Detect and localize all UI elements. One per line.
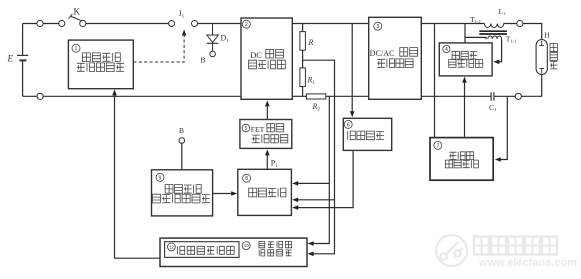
svg-text:7: 7 bbox=[436, 143, 439, 149]
block 4 text line2 点灯电路 bbox=[449, 60, 483, 68]
node B below diode bbox=[210, 51, 216, 57]
label R1 bbox=[307, 76, 316, 87]
label R2 bbox=[312, 102, 321, 113]
box 12 inner 低压关灯电路 bbox=[165, 242, 239, 258]
block 9 circled number 9 bbox=[156, 173, 164, 181]
wire top rail segment J1 to block 2 (through diode node) bbox=[195, 23, 242, 25]
wire transformer secondary left terminal bbox=[465, 37, 486, 39]
battery label E bbox=[7, 54, 14, 64]
dashed relay control line from block 1 to J1 bbox=[133, 30, 186, 63]
label P1 bbox=[271, 159, 278, 170]
wire arrow block 8 to block 5 (P1) bbox=[265, 149, 270, 169]
wire bottom rail block 2 to R2 bbox=[292, 95, 306, 97]
svg-text:DC/AC: DC/AC bbox=[370, 49, 396, 58]
block 1 text line2 继电器电路 bbox=[77, 63, 124, 72]
wire top rail junction down to block 4 top bbox=[464, 24, 466, 43]
lamp vertical text 金卤灯 bbox=[550, 44, 557, 69]
block 3 circled number 3 bbox=[374, 22, 382, 30]
wire arrow block 9 to block 8 bbox=[213, 191, 238, 196]
block 4 text line1 金卤灯 bbox=[452, 51, 477, 59]
terminal circle switch left bbox=[59, 20, 65, 26]
block 1 text line1 切断电源 bbox=[82, 53, 120, 62]
wire arrow block 5 to block 2 bottom bbox=[265, 100, 270, 119]
block 7 box 灯点亮起动电路 bbox=[430, 138, 493, 181]
wire from bottom rail right of R2 down (node) bbox=[328, 96, 330, 240]
svg-text:10: 10 bbox=[244, 243, 249, 248]
wire from box 12 left to block 1 bottom with arrow bbox=[112, 89, 160, 258]
svg-text:4: 4 bbox=[445, 47, 448, 53]
wire transformer secondary right down into block 4 with arrow bbox=[493, 39, 501, 64]
block 2 text line2 提升电路 bbox=[249, 60, 286, 69]
terminal circle lamp top bbox=[517, 20, 523, 26]
wire branch to control block 8 (upper arrow) bbox=[292, 181, 329, 186]
wire node B down into block 9 bbox=[181, 143, 183, 170]
svg-text:1: 1 bbox=[75, 46, 78, 52]
switch K blade bbox=[69, 14, 81, 21]
block 6 box 定时电路 bbox=[343, 118, 391, 150]
block 3 text line1 DC/AC高频 bbox=[370, 48, 418, 59]
label T1-2 bbox=[470, 15, 481, 24]
block 2 text line1 DC电压 bbox=[250, 49, 283, 60]
wire top rail segment battery to switch bbox=[23, 23, 62, 25]
wire tap between R and R1 going right and down (node) bbox=[303, 60, 335, 251]
wire from top rail to resistor R bbox=[302, 24, 304, 32]
resistor R1 body bbox=[300, 68, 306, 87]
svg-text:E: E bbox=[7, 54, 14, 64]
box 12 text 低压关灯电路 bbox=[178, 246, 235, 254]
label J1 bbox=[179, 9, 185, 20]
block 4 circled number 4 bbox=[443, 45, 450, 53]
wire branch tap to control block 8 (middle arrow) bbox=[292, 198, 334, 203]
block 9 text line1 电源电压 bbox=[165, 185, 201, 194]
wire top rail down to timer block 6 with arrow bbox=[350, 24, 355, 118]
terminal circle left top bbox=[37, 20, 43, 26]
svg-text:12: 12 bbox=[169, 245, 174, 250]
svg-text:5: 5 bbox=[244, 126, 247, 132]
block 7 text line2 起动电路 bbox=[445, 160, 478, 168]
transformer core bbox=[479, 31, 507, 34]
battery E plates bbox=[17, 55, 28, 60]
label T1-1 bbox=[506, 35, 517, 44]
label D1 bbox=[221, 34, 230, 45]
wire timer block 6 output down then left to block 8 (lower arrow) bbox=[292, 150, 353, 210]
svg-text:B: B bbox=[201, 56, 206, 65]
block 5 circled number 5 and text line1 FET栅极 bbox=[242, 124, 284, 134]
box 10 circled number 10 bbox=[242, 242, 250, 250]
capacitor C1 plates bbox=[491, 92, 494, 100]
svg-text:K: K bbox=[74, 7, 81, 17]
svg-text:R: R bbox=[308, 38, 314, 47]
wire bottom rail block 3 to C1 bbox=[421, 95, 491, 97]
block 6 text 定时电路 bbox=[348, 131, 384, 140]
label R bbox=[308, 38, 314, 47]
block 5 text line2 驱动电路 bbox=[252, 135, 288, 143]
transformer secondary winding T1-1 bbox=[488, 36, 502, 39]
terminal circle lamp bottom bbox=[515, 93, 521, 99]
block 3 box DC/AC高频变换电路 bbox=[369, 17, 422, 99]
wire lamp circuit feedback down-left into block 7 right edge bbox=[495, 96, 508, 162]
node B above block 9 bbox=[179, 138, 185, 144]
switch K label bbox=[74, 7, 81, 17]
label L1 bbox=[499, 7, 507, 16]
label B above block 9 bbox=[179, 126, 184, 135]
block 3 text line2 变换电路 bbox=[377, 59, 413, 68]
wire top rail segment block 2 to block 3 bbox=[292, 23, 368, 25]
svg-text:www.elecfans.com: www.elecfans.com bbox=[478, 257, 577, 269]
box 10 outer 异常状态检测电路 bbox=[160, 238, 307, 266]
relay contact J1 right circle bbox=[192, 21, 198, 27]
block 7 text line1 灯点亮 bbox=[449, 152, 473, 160]
wire bottom rail battery to block 2 bbox=[23, 95, 241, 97]
wire block 7 up to block 4 bottom with arrow bbox=[462, 77, 467, 138]
svg-text:3: 3 bbox=[376, 24, 379, 30]
box 10 text line2 检测电路 bbox=[259, 250, 291, 256]
label B at diode node bbox=[201, 56, 206, 65]
metal halide lamp H tube bbox=[536, 40, 547, 75]
resistor R body bbox=[300, 32, 306, 51]
relay contact J1 left circle bbox=[169, 21, 175, 27]
block 2 box DC电压提升电路 bbox=[241, 18, 292, 99]
block 1 box 切断电源继电器电路 bbox=[68, 40, 133, 89]
block 1 circled number 1 bbox=[72, 44, 80, 52]
wire top rail segment block 3 to transformer primary bbox=[421, 23, 484, 25]
terminal circle switch right bbox=[80, 20, 86, 26]
block 2 circled number 2 bbox=[242, 20, 250, 28]
wire top rail down to block 7 (left feed) bbox=[434, 24, 436, 138]
wire between R and R1 bbox=[302, 50, 304, 68]
box 12 circled number 12 bbox=[168, 243, 176, 251]
wire bottom rail C1 to lamp bottom bbox=[494, 74, 542, 96]
wire bottom rail R2 to block 3 bbox=[326, 95, 369, 97]
block 8 text 控制电路 bbox=[249, 188, 286, 197]
block 4 box 金卤灯点灯电路 bbox=[439, 43, 492, 76]
block 8 box 控制电路 bbox=[238, 169, 292, 215]
block 8 circled number 8 bbox=[243, 174, 251, 182]
resistor R2 body (in bottom rail) bbox=[307, 94, 326, 99]
svg-text:H: H bbox=[544, 31, 550, 40]
label C1 bbox=[489, 103, 497, 112]
block 6 circled number 6 bbox=[344, 120, 352, 128]
block 9 text line2 降落检测电路 bbox=[152, 194, 210, 203]
svg-text:FET: FET bbox=[251, 125, 265, 134]
diode D1 bbox=[207, 24, 219, 52]
transformer T1 primary winding T1-2 (L1) bbox=[484, 24, 503, 28]
label H bbox=[544, 31, 550, 40]
wire elbow into box 10 upper arrow bbox=[308, 240, 330, 246]
svg-text:B: B bbox=[179, 126, 184, 135]
svg-text:6: 6 bbox=[347, 122, 350, 128]
terminal circle left bottom rail bbox=[37, 93, 43, 99]
svg-text:DC: DC bbox=[250, 51, 262, 60]
watermark elecfans logo and text (decor) bbox=[436, 235, 577, 269]
wire R1 to bottom rail bbox=[302, 87, 304, 97]
wire left battery branch bbox=[22, 24, 24, 97]
block 7 circled number 7 bbox=[434, 141, 442, 149]
svg-text:8: 8 bbox=[245, 176, 248, 182]
wire top rail segment switch K to relay contact J1 bbox=[83, 23, 172, 25]
svg-text:9: 9 bbox=[159, 175, 162, 181]
wire tap elbow into box 10 lower arrow bbox=[308, 250, 335, 256]
svg-text:2: 2 bbox=[245, 22, 248, 28]
box 10 text line1 异常状态 bbox=[259, 241, 292, 247]
block 9 box 电源电压降落检测电路 bbox=[152, 170, 213, 216]
wire top rail segment transformer to lamp top bbox=[504, 24, 542, 40]
block 5 box FET栅极驱动电路 bbox=[240, 120, 292, 149]
